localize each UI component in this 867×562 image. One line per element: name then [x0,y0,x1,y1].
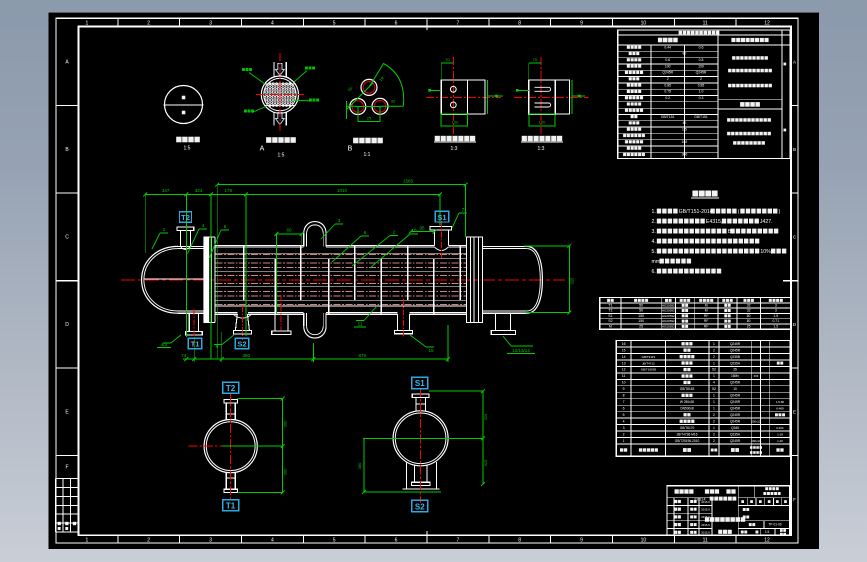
svg-text:3.: 3. [652,229,656,235]
svg-text:9: 9 [580,21,583,27]
svg-text:1.5-80: 1.5-80 [776,400,785,404]
requirements text block [727,118,771,122]
svg-text:40: 40 [683,121,687,125]
top zone band dividers and numbers [118,18,736,26]
left elliptical head [142,246,178,313]
support saddle A [274,314,276,331]
svg-text:102: 102 [682,140,688,144]
svg-text:(: ( [738,209,740,215]
svg-text:DN500x8: DN500x8 [680,407,694,411]
svg-text:5.: 5. [652,249,656,255]
svg-text:10: 10 [641,538,647,544]
svg-text:1: 1 [713,342,715,346]
left end view shell circles [204,420,257,473]
right zone band dividers and letters [791,106,798,456]
label box T1 main view [188,338,201,349]
svg-text:Q245R: Q245R [696,71,707,75]
svg-text:0.6: 0.6 [699,45,704,49]
svg-text:1.5: 1.5 [773,324,778,328]
svg-text:878: 878 [359,353,367,358]
design notes title [692,191,717,197]
shell wall top [216,244,304,246]
svg-text:32: 32 [747,303,751,307]
nozzle T2 [177,227,194,231]
svg-text:TP-01-00: TP-01-00 [768,523,782,527]
title block signature grid [674,500,681,503]
svg-text:74: 74 [181,353,187,358]
technical requirements sub header [718,99,782,101]
svg-text:M: M [609,324,612,328]
svg-text:8: 8 [518,538,521,544]
svg-text:0.44: 0.44 [664,45,671,49]
svg-text:95: 95 [419,225,425,230]
title block frame [667,486,790,535]
svg-text:35: 35 [733,368,737,372]
svg-text:3: 3 [623,426,625,430]
label box T1 end view [223,500,239,511]
svg-text:Q245R: Q245R [730,348,741,352]
svg-text:60: 60 [286,228,292,233]
svg-text:T1: T1 [191,340,200,349]
svg-text:10: 10 [641,21,647,27]
svg-text:325: 325 [483,459,488,466]
pass partition plate [144,278,204,280]
border centering marks [426,18,428,30]
svg-text:16Mn: 16Mn [731,374,739,378]
svg-text:M: M [705,303,708,307]
svg-text:2015.6: 2015.6 [701,523,710,527]
svg-text:80: 80 [747,314,751,318]
svg-text:2: 2 [713,355,715,359]
svg-text:Q245R: Q245R [730,381,741,385]
svg-text:1: 1 [86,538,89,544]
leader 2 shell [352,236,390,267]
svg-text:380: 380 [357,462,362,469]
svg-text:Q345: Q345 [731,426,739,430]
overall dimension line 1565 [217,184,465,186]
svg-text:S2: S2 [237,340,246,349]
leader 1 head [152,233,160,249]
svg-text:52: 52 [712,368,716,372]
detail view: fixed tube sheet [540,57,542,134]
svg-text:GB/T151-2014: GB/T151-2014 [679,209,713,215]
svg-text:HG20592: HG20592 [662,303,675,307]
svg-text:1:3: 1:3 [451,146,458,152]
tie rod lines [216,258,467,260]
svg-text:10: 10 [411,228,417,233]
leader 7 S1 [452,213,459,228]
svg-text:0.71: 0.71 [772,319,779,323]
nozzle S2 [233,314,252,318]
svg-text:F: F [65,465,68,471]
svg-text:Q245R: Q245R [730,407,741,411]
rear head cylinder [483,245,527,247]
inner border frame [79,27,791,536]
svg-text:100: 100 [452,120,459,125]
tube sheet leader labels [249,73,265,85]
svg-text:JB/T4712: JB/T4712 [642,361,655,365]
svg-text:380: 380 [242,353,250,358]
right end view top nozzle S1 [412,394,429,397]
expansion joint location dimension [276,233,301,235]
bottom-left revision grid [55,479,78,532]
svg-text:11: 11 [703,21,708,27]
svg-text:11: 11 [358,322,363,327]
leader 6 [332,236,361,262]
svg-text:JB/T4736-M16: JB/T4736-M16 [677,432,698,436]
detail 4 caption [435,136,476,141]
svg-text:GB/T16939: GB/T16939 [641,368,657,372]
svg-text:1010: 1010 [337,188,348,193]
svg-text:3: 3 [775,309,777,313]
svg-text:RF: RF [704,319,709,323]
flow arrows [276,64,285,76]
svg-text:1: 1 [713,426,715,430]
svg-text:1: 1 [713,374,715,378]
svg-text:T1: T1 [226,502,236,511]
svg-text:10%,: 10%, [760,249,772,255]
svg-text:250x12: 250x12 [751,419,761,423]
svg-text:70: 70 [533,57,538,62]
svg-text:T2: T2 [608,309,612,313]
left end view dimensions [222,445,283,447]
svg-text:GB/T9119: GB/T9119 [642,355,656,359]
svg-text:4: 4 [623,419,625,423]
svg-text:Q245R: Q245R [730,419,741,423]
svg-text:12: 12 [764,538,770,544]
detail 2 caption [266,137,296,143]
svg-text:2015.6: 2015.6 [701,508,710,512]
svg-text:1565: 1565 [403,179,414,184]
svg-text:100: 100 [539,120,546,125]
svg-text:HG20592: HG20592 [662,309,675,313]
tube pitch dimension lines [346,83,373,110]
svg-text:300: 300 [283,420,288,427]
svg-text:HG20592: HG20592 [662,324,675,328]
svg-text:GB/T25198-2010: GB/T25198-2010 [675,439,700,443]
left end view top nozzle T2 [224,400,238,403]
svg-text:4: 4 [713,381,715,385]
left end view center lines [230,393,232,500]
svg-text:325: 325 [483,413,488,420]
svg-text:5: 5 [333,21,336,27]
svg-text:14: 14 [622,355,626,359]
right end view bottom S2 and saddle [405,462,407,489]
svg-text:Q235A: Q235A [730,361,741,365]
right end view dimensions [363,437,483,439]
svg-text:150: 150 [638,314,644,318]
svg-text:RF: RF [704,314,709,318]
svg-text:324: 324 [195,188,203,193]
svg-text:2015.6: 2015.6 [701,515,710,519]
svg-text:Q245R: Q245R [730,394,741,398]
tube sheet nozzle stubs [273,62,275,78]
svg-text:13: 13 [622,361,626,365]
svg-text:10: 10 [622,381,626,385]
svg-text:25: 25 [367,116,372,121]
svg-text:1: 1 [713,400,715,404]
right end view shell circles [393,411,448,466]
svg-text:D: D [65,322,69,328]
svg-text:6-469: 6-469 [776,407,784,411]
svg-text:1:3: 1:3 [538,146,545,152]
svg-text:S1: S1 [608,314,612,318]
svg-text:9: 9 [580,538,583,544]
svg-text:300: 300 [283,468,288,475]
svg-text:M: M [705,309,708,313]
nozzle schedule table [600,298,791,330]
svg-text:10: 10 [733,387,737,391]
svg-text:12: 12 [622,368,626,372]
svg-text:7: 7 [457,538,460,544]
svg-text:5: 5 [623,413,625,417]
svg-text:52: 52 [712,387,716,391]
label box S2 end view [412,500,428,511]
svg-text:S1: S1 [415,379,425,388]
nozzle S1 [430,226,452,230]
svg-text:6.: 6. [652,269,656,275]
svg-text:1:5: 1:5 [184,146,191,152]
design parameter rows [618,51,718,152]
svg-text:325: 325 [570,277,575,285]
expansion joint bottom [303,313,305,326]
detail 3 caption [353,138,383,144]
left header design parameters [658,38,678,43]
svg-text:1: 1 [713,361,715,365]
svg-text:RF: RF [704,324,709,328]
svg-text:B: B [348,146,353,153]
leader 15 drain [410,335,426,347]
svg-text:GB/T151: GB/T151 [661,115,675,119]
svg-text:B: B [793,147,796,152]
left end view bottom nozzle T1 [225,472,227,489]
svg-text:15: 15 [428,348,434,353]
svg-text:1-18: 1-18 [777,432,783,436]
leader 3 expansion joint [321,224,335,239]
svg-text:2: 2 [713,439,715,443]
svg-text:5: 5 [333,538,336,544]
svg-text:300: 300 [682,153,688,157]
svg-text:25: 25 [747,324,751,328]
title block right info [765,487,779,490]
svg-text:1: 1 [713,394,715,398]
svg-text:32: 32 [391,99,396,104]
detail view: tube sheet circle [261,76,298,113]
svg-text:2: 2 [713,348,715,352]
leader 4/3 T1 [171,335,181,343]
svg-text:1:5: 1:5 [278,153,285,159]
svg-text:A: A [260,146,265,153]
svg-text:0.75: 0.75 [664,90,671,94]
leader 10 tubes [370,234,410,268]
svg-text:2: 2 [623,432,625,436]
svg-text:347: 347 [162,188,170,193]
svg-text:4: 4 [271,21,274,27]
svg-text:2: 2 [147,538,150,544]
dimension line row 2 [145,193,440,195]
detail 5 caption [522,136,563,141]
svg-text:70: 70 [445,57,450,62]
nozzle table header [607,299,614,302]
svg-text:100: 100 [665,64,671,68]
svg-text:8: 8 [518,21,521,27]
right end view center line [420,388,422,503]
label box S1 main view [435,211,448,222]
expansion joint top [303,234,305,247]
drain nozzle [396,314,398,330]
svg-text:12: 12 [764,21,770,27]
svg-text:1: 1 [683,102,685,106]
svg-text:1.0: 1.0 [699,90,704,94]
tube bundle outer limits [216,253,467,255]
tube sheet center lines [279,53,281,133]
left zone band dividers and letters [56,106,79,456]
tube band chords [265,83,296,85]
detail 1 caption [176,137,200,143]
label box T2 end view [223,382,239,393]
svg-text:2015.6: 2015.6 [701,531,710,535]
svg-text:T2: T2 [226,384,236,393]
svg-text:E4315,: E4315, [706,219,722,225]
leader 5 [209,230,221,259]
technical characteristics table frame [618,30,790,159]
svg-text:0.2: 0.2 [665,96,670,100]
svg-text:7: 7 [623,400,625,404]
svg-text:32: 32 [747,309,751,313]
svg-text:2: 2 [147,21,150,27]
svg-text:1: 1 [623,439,625,443]
svg-text:Q235B: Q235B [730,355,740,359]
svg-text:Q245R: Q245R [730,439,741,443]
svg-text:9: 9 [623,387,625,391]
svg-text:IIIIII: IIIIII [754,374,759,378]
BOM header row [620,448,627,451]
heat exchange tubes [216,254,467,304]
label box S1 end view [412,377,428,388]
narrow column marks [784,63,787,66]
svg-text:GB/T6170: GB/T6170 [680,426,695,430]
svg-text:2: 2 [713,419,715,423]
svg-text:T2: T2 [181,213,190,222]
svg-text:80: 80 [747,319,751,323]
table title row [679,31,720,35]
svg-text:HG20592: HG20592 [662,319,675,323]
svg-text:2: 2 [667,77,669,81]
svg-text:A: A [793,60,796,65]
svg-text:15: 15 [622,348,626,352]
svg-text:50: 50 [639,303,643,307]
svg-text:2.: 2. [652,219,656,225]
svg-text:C: C [65,235,69,241]
S1 nozzle dimension [411,231,435,233]
right header standards [731,38,768,42]
title block university row [675,489,694,493]
svg-text:12/13/14: 12/13/14 [512,348,530,353]
standards text block [732,56,768,60]
svg-text:4.: 4. [652,239,656,245]
detail view: tube pitch circles [361,79,377,95]
svg-text:7: 7 [457,21,460,27]
svg-text:Q245R: Q245R [662,71,673,75]
svg-text:0.3: 0.3 [699,96,704,100]
svg-text:S2: S2 [608,319,612,323]
shell wall bottom [216,312,238,314]
svg-text:0.85: 0.85 [664,83,671,87]
svg-text:150: 150 [638,319,644,323]
leader 9 S2 [222,335,234,345]
label box T2 main view [180,212,192,223]
svg-text:J427.: J427. [760,219,773,225]
svg-text:2015.6: 2015.6 [701,500,710,504]
svg-text:S2: S2 [415,502,425,511]
svg-text:50: 50 [639,309,643,313]
detail 4 dimensions [441,62,453,64]
main horizontal centerline [121,279,565,281]
bill of materials table [616,341,790,457]
svg-text:F: F [793,497,796,502]
svg-text:S1: S1 [437,213,446,222]
svg-text:160x10: 160x10 [751,439,761,443]
baffle plates [244,245,461,314]
detail 5 dimensions [529,62,542,64]
svg-text:2: 2 [713,432,715,436]
svg-text:Q245R: Q245R [730,400,741,404]
right tube sheet and flange [466,237,482,322]
svg-text:11: 11 [703,538,708,544]
rear elliptical head [527,246,543,313]
svg-text:16: 16 [622,342,626,346]
title block drawing name [705,517,745,522]
svg-text:8: 8 [623,394,625,398]
svg-text:1-40: 1-40 [777,439,783,443]
svg-text:11: 11 [622,374,626,378]
leader 4 [188,229,200,254]
svg-text:1.: 1. [652,209,656,215]
leader 11 baffle [364,306,377,321]
svg-text:HG20592: HG20592 [662,314,675,318]
nozzle T1 [188,313,190,331]
svg-text:3: 3 [209,538,212,544]
detail view: floating tube sheet [452,57,454,134]
support saddle B [495,314,497,330]
detail 5 slots [535,87,551,91]
svg-text:GB/T8163: GB/T8163 [680,387,695,391]
channel bonnet shell [178,245,204,247]
svg-text:6-40F: 6-40F [776,426,784,430]
svg-text:4/3: 4/3 [161,342,168,347]
leader 12/13/14 saddle [503,336,511,346]
svg-text:Q245R: Q245R [730,413,741,417]
svg-text:25: 25 [639,324,643,328]
svg-text:80: 80 [683,52,687,56]
svg-text:4: 4 [271,538,274,544]
svg-text:0.6: 0.6 [665,58,670,62]
rear head dimension box [524,245,570,247]
svg-text:1:1: 1:1 [364,152,371,158]
svg-text:GB/T151: GB/T151 [694,115,708,119]
svg-text:Q245R: Q245R [730,342,741,346]
svg-text:1: 1 [86,21,89,27]
bottom zone band dividers and numbers [118,535,736,543]
svg-text:0.8: 0.8 [699,58,704,62]
svg-text:1.5: 1.5 [682,127,687,131]
svg-text:2: 2 [700,77,702,81]
svg-text:): ) [779,209,781,215]
svg-text:1.5: 1.5 [773,314,778,318]
detail view: impingement baffle circle [165,86,203,124]
svg-text:6: 6 [395,538,398,544]
svg-text:W 250x30: W 250x30 [680,400,695,404]
